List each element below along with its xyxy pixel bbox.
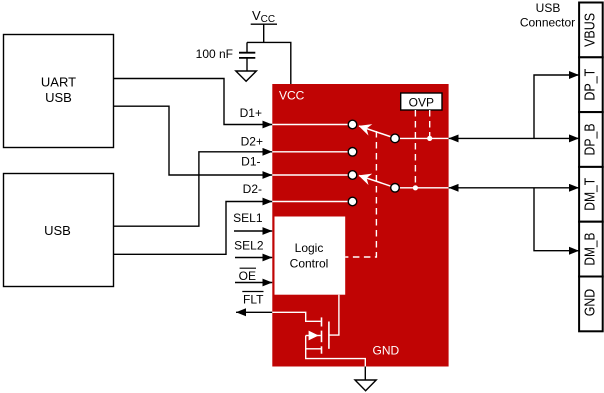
Logic Control box: [275, 217, 346, 295]
svg-text:SEL1: SEL1: [233, 211, 263, 225]
svg-text:GND: GND: [582, 289, 598, 317]
wire USB to D2+: [114, 152, 273, 226]
svg-text:USB: USB: [44, 223, 71, 238]
gate connection: [329, 295, 339, 335]
channel segment drain: [321, 317, 323, 326]
svg-text:UART: UART: [41, 75, 76, 90]
svg-text:USB: USB: [45, 90, 72, 105]
wire FLT output: [236, 311, 272, 313]
USB connector pin DP_T: [579, 57, 603, 112]
svg-text:Control: Control: [290, 257, 329, 271]
wire switch2 to DM_T (bidirectional): [449, 187, 579, 189]
svg-text:SEL2: SEL2: [234, 239, 264, 253]
Vcc supply label: [251, 8, 277, 43]
channel segment body: [321, 331, 323, 343]
body stub: [306, 348, 322, 350]
wire UART to D1+: [114, 79, 273, 125]
switch blade 1: [359, 126, 395, 138]
MOSFET Q1: [306, 295, 366, 367]
svg-text:D1-: D1-: [241, 155, 260, 169]
USB connector pin GND: [579, 277, 603, 332]
wire Vcc node: [247, 42, 291, 84]
svg-text:VBUS: VBUS: [582, 13, 598, 47]
wire OE stub: [235, 282, 272, 284]
svg-text:Logic: Logic: [295, 241, 324, 255]
ground under capacitor: [236, 71, 257, 81]
wire D2- internal: [272, 201, 348, 203]
wire pole1 to right edge: [395, 137, 449, 139]
label USB Connector: [520, 1, 575, 30]
wire branch to DP_T: [534, 75, 579, 138]
svg-text:D2-: D2-: [243, 182, 262, 196]
switch contact D2-: [348, 197, 357, 206]
OVP dashed line to wire1: [429, 110, 431, 137]
svg-text:100 nF: 100 nF: [196, 47, 233, 61]
wire GND out: [364, 367, 366, 381]
svg-text:OVP: OVP: [409, 96, 434, 110]
USB connector pin DM_B: [579, 222, 603, 277]
svg-text:USB: USB: [536, 1, 561, 15]
control dashed line to switches: [345, 131, 376, 257]
USB connector pin DP_B: [579, 112, 603, 167]
source line: [306, 335, 321, 337]
svg-text:DP_B: DP_B: [582, 124, 598, 156]
switch pole 2: [391, 184, 400, 193]
svg-text:VCC: VCC: [279, 89, 305, 103]
switch pole 1: [391, 134, 400, 143]
box UART USB: [4, 35, 114, 148]
source down wire: [306, 336, 366, 367]
label OE (overline): [239, 268, 256, 283]
USB connector pin VBUS: [579, 3, 603, 58]
svg-text:VCC: VCC: [252, 8, 275, 25]
svg-text:OE: OE: [239, 269, 256, 283]
svg-text:FLT: FLT: [243, 293, 264, 307]
switch contact D1+: [348, 120, 357, 129]
wire SEL2 stub: [235, 257, 272, 259]
wire SEL1 stub: [234, 230, 272, 232]
wire branch to DM_B: [534, 188, 579, 251]
svg-text:GND: GND: [373, 344, 400, 358]
label FLT (overline): [242, 292, 264, 307]
OVP dashed line to wire2: [414, 110, 416, 186]
junction dot on wire2: [413, 185, 418, 190]
capacitor C 100nF: [239, 42, 255, 71]
svg-text:DM_B: DM_B: [582, 233, 598, 266]
switch contact D2+: [348, 148, 357, 157]
wire pole2 to right edge: [395, 187, 449, 189]
svg-text:DP_T: DP_T: [582, 69, 598, 101]
wire D1+ internal: [272, 124, 348, 126]
USB connector pin DM_T: [579, 167, 603, 222]
svg-text:D1+: D1+: [240, 106, 262, 120]
gate bar: [328, 322, 330, 349]
box USB: [4, 174, 114, 287]
switch contact D1-: [348, 171, 357, 180]
switch blade 2: [359, 176, 395, 188]
wire D1- internal: [272, 174, 348, 176]
channel segment source: [321, 346, 323, 353]
body arrow: [309, 331, 319, 341]
OVP box: [401, 93, 442, 110]
IC block (red): [272, 84, 448, 367]
wire USB to D2-: [114, 202, 273, 255]
wire switch1 to DP_B (bidirectional): [449, 137, 579, 139]
svg-text:Connector: Connector: [520, 16, 575, 30]
svg-text:D2+: D2+: [241, 135, 263, 149]
wire D2+ internal: [272, 151, 348, 153]
FLT internal wire to MOSFET drain: [272, 312, 321, 321]
ground symbol bottom: [355, 380, 376, 391]
wire UART to D1-: [114, 106, 273, 175]
svg-text:DM_T: DM_T: [582, 178, 598, 211]
junction dot on wire1: [427, 136, 432, 141]
